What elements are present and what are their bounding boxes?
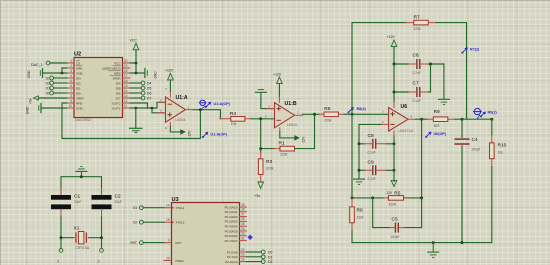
svg-text:+5v: +5v <box>255 194 261 198</box>
svg-text:3: 3 <box>70 69 72 73</box>
svg-text:-12V: -12V <box>302 136 306 144</box>
svg-text:220k: 220k <box>266 167 274 171</box>
crystal X1 <box>60 226 104 251</box>
terminal D2 <box>46 81 67 85</box>
svg-text:U6(OP): U6(OP) <box>434 132 447 136</box>
svg-text:4: 4 <box>70 74 72 78</box>
chip U2 body <box>74 52 123 123</box>
svg-text:R4: R4 <box>230 111 236 117</box>
svg-text:DI2: DI2 <box>76 81 81 85</box>
wire <box>42 107 67 109</box>
svg-text:1: 1 <box>70 59 72 63</box>
svg-text:D6: D6 <box>147 92 151 96</box>
svg-text:19: 19 <box>124 64 128 68</box>
ground (right of C6/C7) <box>438 99 449 104</box>
svg-text:P2.2/A10: P2.2/A10 <box>225 260 238 264</box>
svg-text:DAC_1: DAC_1 <box>31 63 43 67</box>
node junction <box>61 72 64 75</box>
svg-text:C5: C5 <box>392 217 398 223</box>
svg-text:DI1: DI1 <box>76 86 81 90</box>
svg-text:16: 16 <box>124 79 128 83</box>
svg-text:R7: R7 <box>414 15 420 21</box>
svg-text:50R: 50R <box>434 124 441 128</box>
svg-text:P2.1/A9: P2.1/A9 <box>227 255 238 259</box>
svg-text:XFER: XFER <box>112 76 121 80</box>
svg-text:GND: GND <box>26 106 30 114</box>
svg-text:R9: R9 <box>434 109 440 115</box>
svg-text:DI4: DI4 <box>116 81 121 85</box>
capacitor C5 <box>373 198 422 239</box>
svg-text:12: 12 <box>124 99 128 103</box>
resistor R3 (vertical) <box>255 149 274 198</box>
capacitor C7 <box>393 81 431 103</box>
svg-text:22pF: 22pF <box>74 200 81 204</box>
svg-text:VCC: VCC <box>130 39 138 43</box>
svg-text:220k: 220k <box>280 152 288 156</box>
power +5v (below R3, pointing down) <box>258 182 264 188</box>
wire to pin3 <box>152 108 166 113</box>
wire U1:B output to R8 <box>303 113 320 115</box>
svg-text:R3: R3 <box>266 159 272 165</box>
svg-text:C2: C2 <box>115 194 121 200</box>
svg-text:LM324: LM324 <box>287 123 297 127</box>
ground (above C1/C2) <box>76 167 87 177</box>
svg-text:R7(2): R7(2) <box>470 48 480 52</box>
terminal (below C1) <box>56 249 63 264</box>
wire output node down (to R5 / C5) <box>421 119 423 227</box>
svg-text:D4: D4 <box>147 82 151 86</box>
svg-text:VCC: VCC <box>114 61 121 65</box>
svg-text:GND: GND <box>27 70 31 78</box>
svg-text:C6: C6 <box>413 53 419 59</box>
svg-text:GND: GND <box>76 71 84 75</box>
resistor R9 <box>427 109 455 128</box>
U2 right pin stubs <box>123 63 131 108</box>
power +12V (above U1:A) <box>164 69 174 98</box>
svg-text:ILE(BY1/BY2): ILE(BY1/BY2) <box>102 66 121 70</box>
wire <box>38 97 66 99</box>
svg-text:R8: R8 <box>324 106 330 112</box>
svg-text:LM324: LM324 <box>176 118 186 122</box>
svg-text:32: 32 <box>241 236 245 240</box>
wire R7 right, down to output node <box>436 23 466 120</box>
current probe R8(2) <box>348 108 353 114</box>
svg-text:+12V: +12V <box>273 72 282 76</box>
svg-text:+12V: +12V <box>165 69 174 73</box>
U2 left pin stubs <box>67 63 75 108</box>
terminal D7 <box>130 96 151 100</box>
svg-text:U1:A(OP): U1:A(OP) <box>211 133 228 137</box>
svg-text:C7: C7 <box>413 81 419 87</box>
terminal RST <box>130 241 164 245</box>
capacitor C9 <box>358 159 396 181</box>
U2 right pin numbers <box>124 59 128 108</box>
svg-text:RFB: RFB <box>76 101 82 105</box>
svg-text:D0: D0 <box>268 251 272 255</box>
svg-text:37: 37 <box>241 212 245 216</box>
power +5v (left, pointing left) <box>29 96 67 104</box>
U2 left pin names <box>76 61 84 111</box>
svg-text:P0.2/AD2: P0.2/AD2 <box>225 215 238 219</box>
resistor R6 (vertical) <box>350 198 364 243</box>
svg-text:29: 29 <box>166 256 170 260</box>
wire <box>62 68 67 73</box>
svg-text:13: 13 <box>124 94 128 98</box>
wire R9 to R10 node <box>455 118 492 120</box>
svg-text:11: 11 <box>124 104 128 108</box>
svg-text:R10: R10 <box>498 143 507 149</box>
svg-text:GND: GND <box>154 71 158 79</box>
wire U6 output <box>416 118 427 120</box>
svg-text:33: 33 <box>241 232 245 236</box>
wire IOUT1 to op-amp inputs <box>130 102 166 108</box>
resistor R10 (vertical) <box>490 119 507 242</box>
ground (below C8/C9 left) <box>354 179 365 184</box>
svg-text:+5v: +5v <box>29 98 33 104</box>
svg-text:WR2: WR2 <box>114 71 121 75</box>
svg-text:11: 11 <box>164 126 168 129</box>
wire U6 pin2 to left column <box>359 124 381 178</box>
svg-text:P0.6/AD6: P0.6/AD6 <box>225 234 238 238</box>
svg-text:200pF: 200pF <box>472 147 481 151</box>
terminal D3 <box>46 76 67 80</box>
svg-text:IOUT2: IOUT2 <box>112 101 121 105</box>
terminal X1 <box>133 206 164 210</box>
svg-text:7: 7 <box>70 89 72 93</box>
U2 right pin names <box>102 61 122 110</box>
U3 right pin stubs P2 <box>240 252 247 262</box>
svg-text:2.2uF: 2.2uF <box>413 71 421 75</box>
svg-text:C1: C1 <box>74 194 80 200</box>
wire U6 pin4 down to -12V arrow <box>393 136 395 181</box>
power -12V (below U1:B, pointing right) <box>280 128 306 144</box>
wire R4 to U1:B pin6 <box>251 118 274 120</box>
capacitor C8 <box>358 133 396 155</box>
U3 right pin stubs P0 <box>240 207 247 241</box>
U3 left pin numbers <box>166 204 170 261</box>
pin stubs U6 <box>381 119 416 124</box>
svg-text:XTAL1: XTAL1 <box>176 206 185 210</box>
voltage probe U1:A(OP) <box>199 100 210 109</box>
terminal D4 <box>130 81 151 85</box>
svg-text:6: 6 <box>70 84 72 88</box>
svg-text:D2: D2 <box>268 260 272 264</box>
resistor R5 (horizontal) <box>351 190 424 206</box>
svg-text:39: 39 <box>241 203 245 207</box>
svg-text:PSEN: PSEN <box>176 259 184 263</box>
svg-text:C9: C9 <box>368 159 374 165</box>
svg-text:22: 22 <box>241 253 245 257</box>
svg-text:U1:B: U1:B <box>285 101 297 107</box>
svg-text:U6: U6 <box>401 104 408 110</box>
capacitor C4 (vertical) <box>455 119 480 242</box>
svg-text:R8(2): R8(2) <box>357 107 367 111</box>
svg-text:150pF: 150pF <box>391 235 400 239</box>
wire <box>130 50 144 73</box>
svg-text:R1: R1 <box>279 141 285 147</box>
power +12V (above U1:B) <box>273 72 282 102</box>
wire C7 right up to C6 row <box>430 64 432 92</box>
svg-text:2.2uF: 2.2uF <box>368 177 376 181</box>
svg-text:35: 35 <box>241 222 245 226</box>
svg-text:-12V: -12V <box>385 191 393 195</box>
wire R7 feedback left vertical <box>352 23 406 198</box>
ground (bottom-left of U2, rotated) <box>26 104 67 115</box>
svg-text:10k: 10k <box>231 122 237 126</box>
svg-text:220k: 220k <box>357 215 364 219</box>
ground (above U1:B pin5) <box>255 90 274 109</box>
svg-text:34: 34 <box>241 227 245 231</box>
svg-text:8: 8 <box>70 94 72 98</box>
svg-text:5: 5 <box>70 79 72 83</box>
power VCC (top of U2) <box>130 39 145 75</box>
svg-text:D1: D1 <box>268 255 272 259</box>
svg-text:P0.1/AD1: P0.1/AD1 <box>225 210 238 214</box>
svg-text:U1:A: U1:A <box>176 95 188 101</box>
power -12V (below U6, pointing down) <box>391 180 397 186</box>
U2 left pin numbers <box>68 59 72 108</box>
svg-text:DAC0832: DAC0832 <box>75 118 91 122</box>
node junction <box>134 107 137 110</box>
power -12V (below U1:A, pointing right) <box>164 122 192 137</box>
svg-text:23: 23 <box>241 257 245 261</box>
current probe U1:A(OP) lower <box>202 132 207 138</box>
wire C2 bottom leg <box>101 209 103 217</box>
svg-text:220k: 220k <box>324 118 331 122</box>
op-amp U1:B <box>265 101 303 128</box>
svg-text:D7: D7 <box>147 97 151 101</box>
svg-text:R6: R6 <box>357 208 363 214</box>
svg-text:21: 21 <box>241 248 245 252</box>
terminal D0 <box>247 250 273 254</box>
current probe U6(OP) <box>426 132 431 137</box>
svg-text:X2: X2 <box>97 259 101 263</box>
ground (below IOUT node) <box>130 128 142 132</box>
svg-text:DI6: DI6 <box>116 91 121 95</box>
U3 left pin stubs <box>164 208 172 261</box>
svg-text:36: 36 <box>241 217 245 221</box>
svg-text:18: 18 <box>124 69 128 73</box>
svg-text:VREF: VREF <box>76 96 84 100</box>
voltage probe R9(2) <box>473 108 485 118</box>
ground (bottom rail) <box>428 243 439 258</box>
svg-text:X1: X1 <box>74 226 80 232</box>
U3 right pin numbers <box>241 203 245 262</box>
ground (right of U2 pin18, rotated) <box>145 69 158 79</box>
terminal (below C2) <box>97 249 104 264</box>
svg-text:P0.4/AD4: P0.4/AD4 <box>225 225 238 229</box>
svg-text:C8: C8 <box>368 133 374 139</box>
pin stubs U1:B <box>267 109 303 116</box>
svg-text:U1:A(OP): U1:A(OP) <box>214 102 231 106</box>
svg-text:510R: 510R <box>389 202 397 206</box>
svg-text:X1: X1 <box>56 259 60 263</box>
svg-text:9: 9 <box>168 238 170 242</box>
svg-text:LM6171/A: LM6171/A <box>399 129 414 133</box>
svg-text:CRYSTAL: CRYSTAL <box>76 246 91 250</box>
svg-text:19: 19 <box>166 204 170 208</box>
svg-text:XTAL2: XTAL2 <box>176 221 185 225</box>
svg-text:38: 38 <box>241 208 245 212</box>
wire IOUT2 jog to IOUT1 <box>130 103 148 108</box>
bottom rail wire <box>352 242 492 244</box>
wire <box>43 72 67 74</box>
svg-text:0.1uF: 0.1uF <box>413 99 421 103</box>
resistor R4 <box>220 111 251 126</box>
svg-text:10: 10 <box>68 104 72 108</box>
svg-text:P0.5/AD5: P0.5/AD5 <box>225 229 238 233</box>
terminal D0 <box>46 91 67 95</box>
svg-text:+12V: +12V <box>387 35 396 39</box>
svg-text:GND: GND <box>76 106 84 110</box>
svg-text:14: 14 <box>124 89 128 93</box>
chip U3 body <box>172 197 240 265</box>
U3 right pin names <box>225 205 238 264</box>
terminal D1 <box>46 86 67 90</box>
current probe R7(2) <box>462 48 467 54</box>
svg-text:DI3: DI3 <box>76 76 81 80</box>
svg-text:R5: R5 <box>394 190 400 196</box>
svg-text:20: 20 <box>124 59 128 63</box>
wire C1 bottom leg <box>60 209 62 217</box>
svg-text:22pF: 22pF <box>115 200 122 204</box>
svg-text:10k: 10k <box>498 150 504 154</box>
svg-text:X2: X2 <box>133 221 137 225</box>
svg-text:P0.3/AD3: P0.3/AD3 <box>225 220 238 224</box>
svg-text:C4: C4 <box>472 137 478 143</box>
resistor R8 <box>320 106 345 122</box>
capacitor C6 <box>393 53 444 75</box>
wire RFB feedback (pin9 around bottom to U1:A output) <box>62 103 200 139</box>
svg-text:R9(2): R9(2) <box>488 111 498 115</box>
svg-text:9: 9 <box>70 99 72 103</box>
svg-text:RST: RST <box>130 241 137 245</box>
svg-text:WR1: WR1 <box>76 66 83 70</box>
wire C6 row down to ground <box>443 64 445 99</box>
pin stubs U1:A <box>158 102 194 113</box>
wire U1:A output <box>194 110 221 119</box>
capacitor C2 <box>92 194 122 210</box>
svg-text:0.1uF: 0.1uF <box>368 151 376 155</box>
svg-text:U3: U3 <box>172 197 179 203</box>
svg-text:220k: 220k <box>414 27 421 31</box>
svg-text:DI5: DI5 <box>116 86 121 90</box>
blue marker (on P0.6 pin) <box>247 235 252 240</box>
wire <box>50 62 67 64</box>
svg-text:IOUT1: IOUT1 <box>112 106 121 110</box>
svg-text:DI7: DI7 <box>116 96 121 100</box>
terminal D2 <box>247 260 273 264</box>
node junction <box>135 62 138 65</box>
terminal D6 <box>130 91 151 95</box>
wire R8 to U6 <box>344 113 389 115</box>
terminal D1 <box>247 255 273 259</box>
terminal D5 <box>130 86 151 90</box>
svg-text:X1: X1 <box>133 206 137 210</box>
U3 left pin names <box>176 206 185 263</box>
op-amp U6 <box>381 104 416 136</box>
svg-text:RST: RST <box>176 241 182 245</box>
resistor R7 <box>406 15 436 31</box>
svg-text:CS: CS <box>76 61 80 65</box>
svg-text:P0.7/AD7: P0.7/AD7 <box>225 239 238 243</box>
capacitor C1 <box>51 194 81 210</box>
svg-text:2: 2 <box>70 64 72 68</box>
svg-text:U2: U2 <box>74 52 81 58</box>
terminal X2 <box>133 220 164 224</box>
power +12V (above U6) <box>387 35 397 108</box>
resistor R1 (feedback) <box>259 114 314 156</box>
svg-text:17: 17 <box>124 74 128 78</box>
op-amp U1:A <box>158 95 194 122</box>
terminal DAC_1 <box>31 61 67 67</box>
ground (left of U2, rotated) <box>27 68 67 78</box>
svg-text:D5: D5 <box>147 87 151 91</box>
wire GND drop below IOUT <box>135 108 137 128</box>
svg-text:DI0: DI0 <box>76 91 81 95</box>
node junction output <box>199 108 202 111</box>
wire C1/C2 top rail <box>61 177 102 195</box>
svg-text:-12V: -12V <box>188 130 192 138</box>
svg-text:18: 18 <box>166 218 170 222</box>
svg-text:P2.0/A8: P2.0/A8 <box>227 250 238 254</box>
svg-text:15: 15 <box>124 84 128 88</box>
svg-text:P0.0/AD0: P0.0/AD0 <box>225 205 238 209</box>
